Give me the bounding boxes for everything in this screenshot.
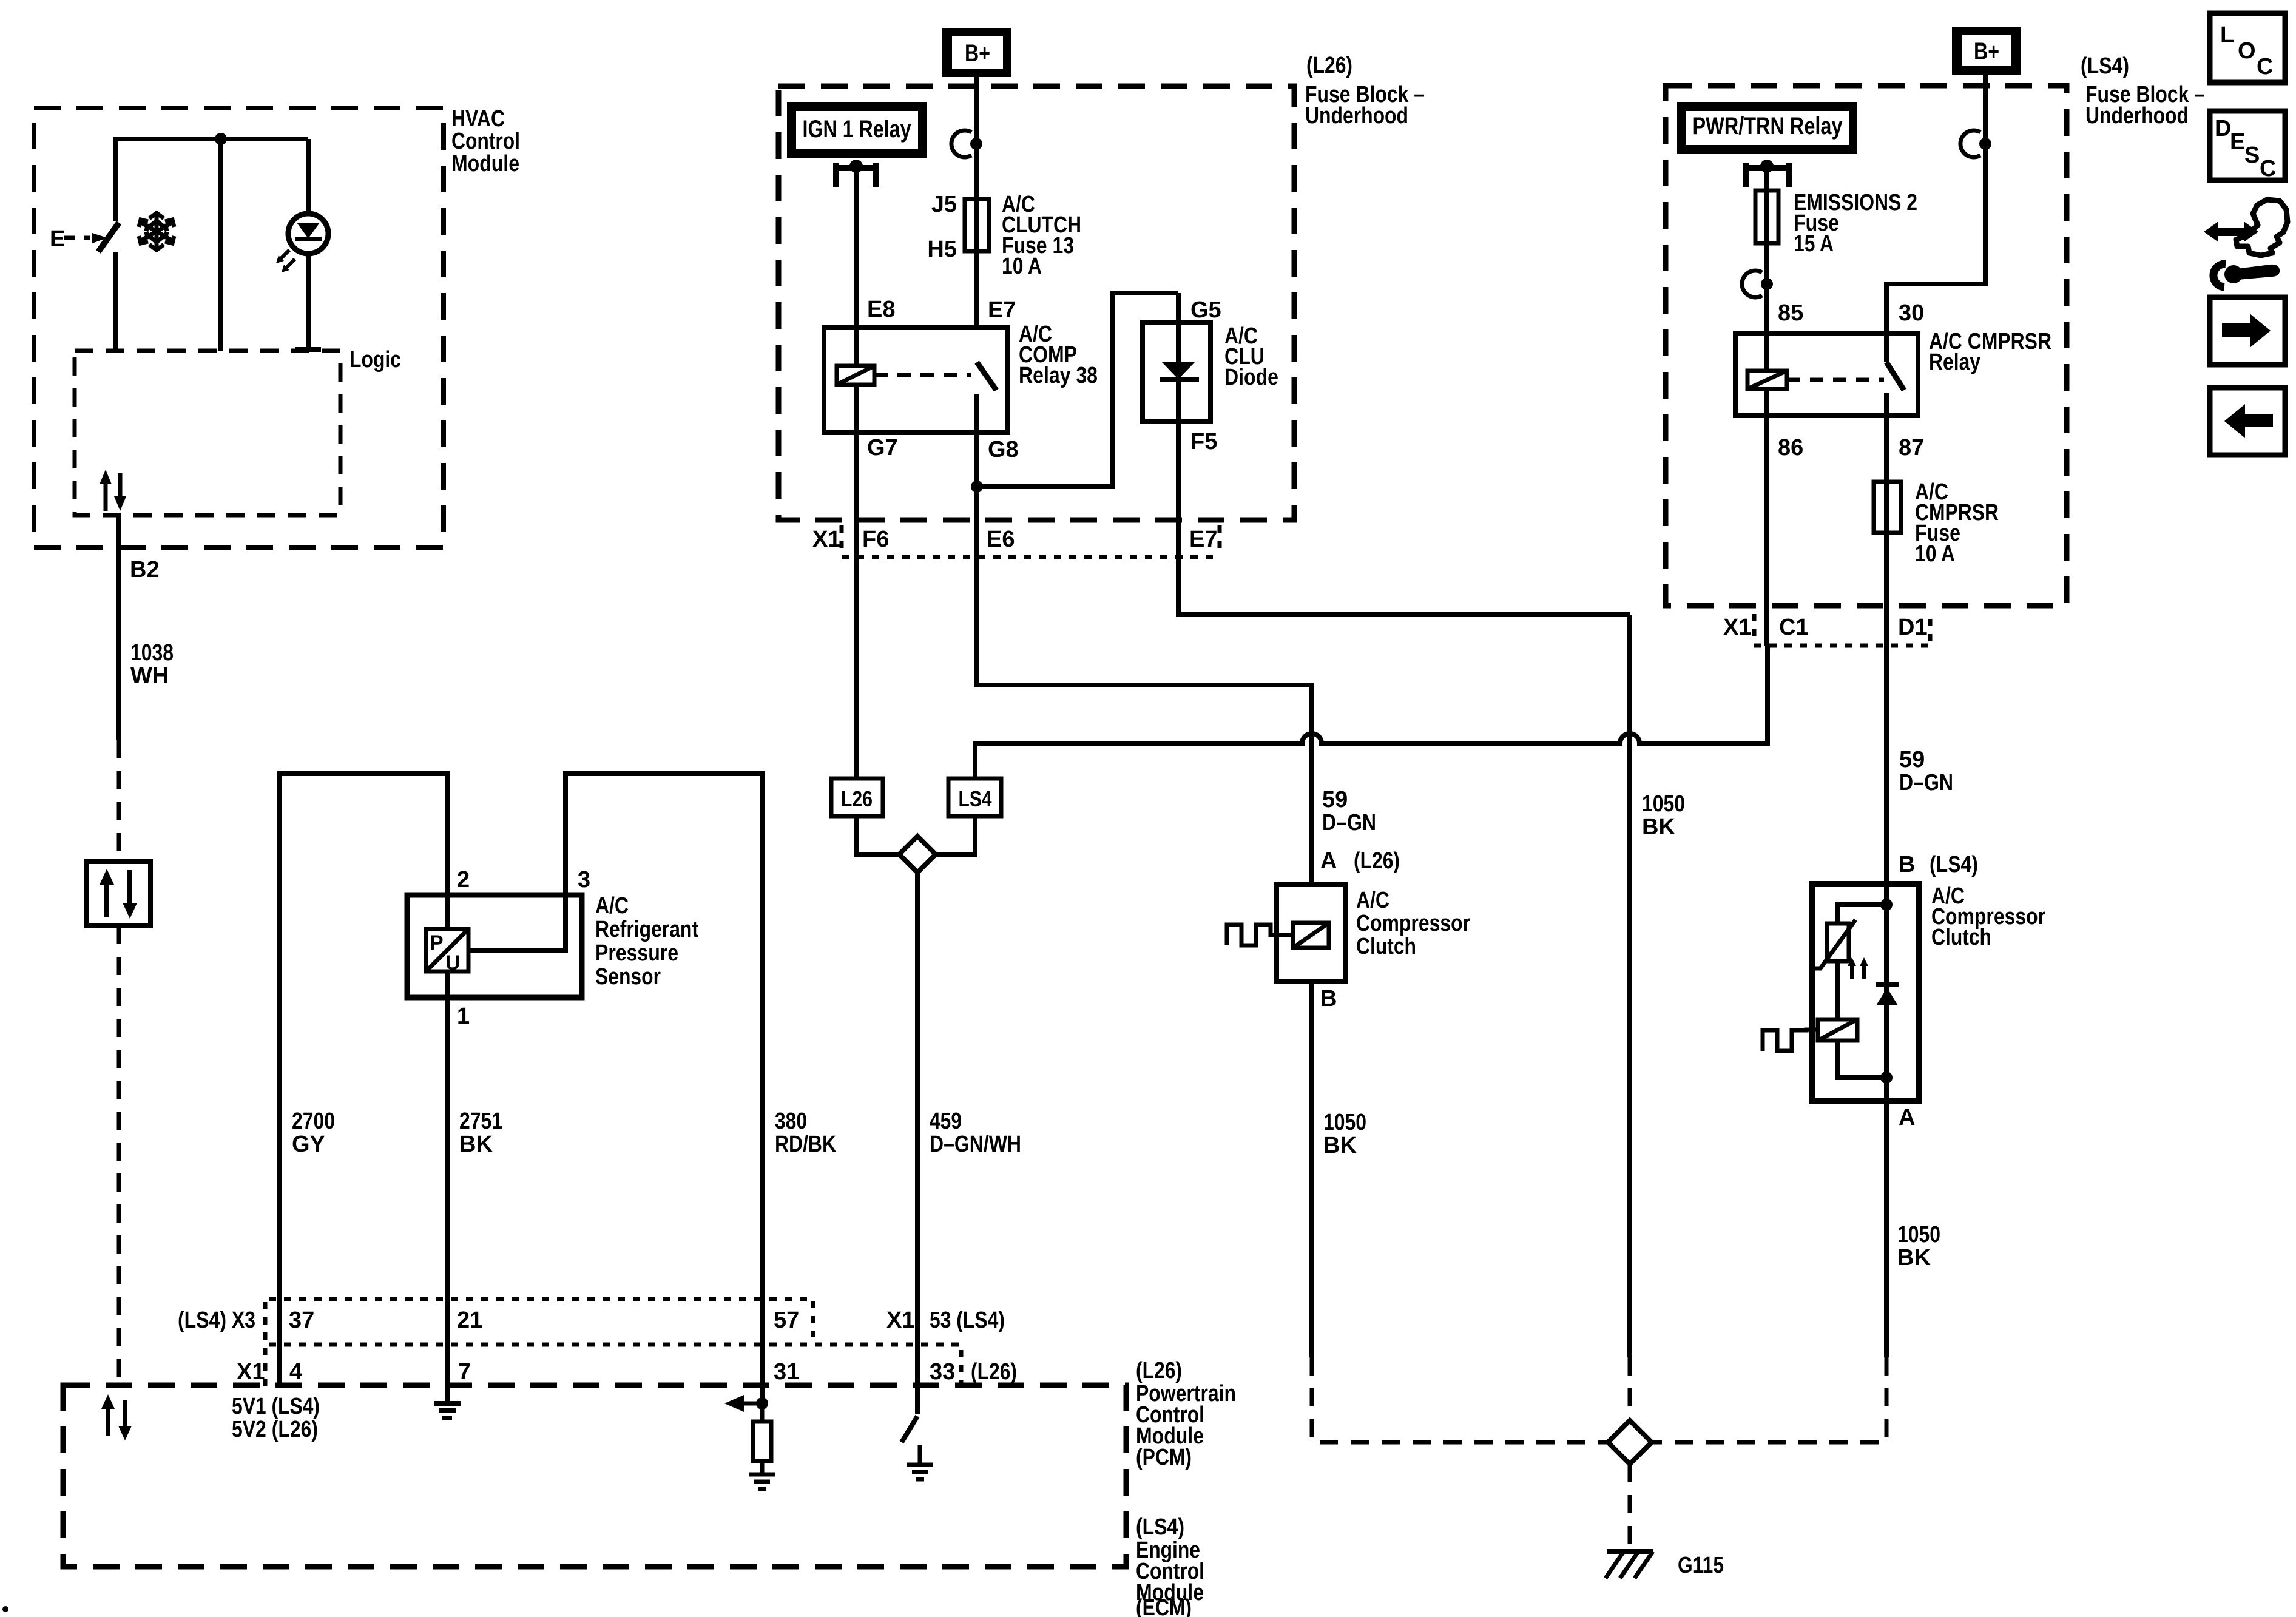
- wire L26 box to splice: [856, 816, 900, 854]
- dashed ground run left: [1312, 1357, 1607, 1442]
- svg-text:(L26): (L26): [1136, 1358, 1182, 1383]
- svg-text:B+: B+: [1974, 38, 1999, 65]
- label HVAC Control Module: [451, 106, 520, 177]
- thermal fuse (thermistor): [1811, 920, 1855, 968]
- up/down arrows in Logic: [100, 470, 126, 511]
- A/C CLU Diode box: [1143, 322, 1210, 422]
- svg-text:HVAC: HVAC: [451, 106, 505, 132]
- ground at pin 7: [434, 1345, 461, 1418]
- svg-text:IGN 1 Relay: IGN 1 Relay: [803, 116, 912, 143]
- dashed ground run middle: [1628, 1357, 1632, 1419]
- resistor R (pull-up): [753, 1403, 771, 1474]
- wire 2751 BK: [445, 895, 450, 1401]
- svg-text:Sensor: Sensor: [595, 964, 661, 990]
- coil-contact dashed link: [1787, 378, 1884, 382]
- svg-text:59: 59: [1322, 787, 1348, 812]
- diode D1 symbol: [1160, 362, 1199, 379]
- svg-text:G5: G5: [1190, 297, 1221, 323]
- ground under resistor: [749, 1474, 775, 1489]
- svg-text:P: P: [430, 931, 444, 954]
- label A/C COMP Relay 38: [1019, 322, 1098, 388]
- IGN 1 Relay label box: [787, 102, 927, 158]
- svg-text:PWR/TRN Relay: PWR/TRN Relay: [1693, 113, 1843, 140]
- fuse A/C CLUTCH Fuse 13: [965, 199, 989, 251]
- svg-text:33: 33: [930, 1359, 955, 1385]
- svg-text:1050: 1050: [1323, 1110, 1366, 1135]
- fuse A/C CMPRSR: [1874, 482, 1901, 533]
- svg-text:1038: 1038: [130, 640, 174, 666]
- svg-text:G7: G7: [867, 435, 898, 461]
- svg-text:1050: 1050: [1642, 791, 1685, 817]
- connector bracket X1 left: [263, 1348, 268, 1386]
- svg-text:1050: 1050: [1897, 1222, 1940, 1247]
- svg-text:10 A: 10 A: [1002, 254, 1042, 279]
- wire G7 to L26 connector: [854, 385, 859, 778]
- inline connector hook B+ right: [1960, 130, 1991, 157]
- svg-text:59: 59: [1899, 747, 1925, 772]
- svg-text:BK: BK: [459, 1132, 493, 1157]
- svg-text:E7: E7: [1189, 527, 1217, 552]
- A/C Compressor Clutch box L26: [1277, 885, 1345, 981]
- hot-gas arrows: [1848, 957, 1868, 979]
- svg-text:H5: H5: [927, 237, 957, 262]
- svg-text:BK: BK: [1897, 1245, 1931, 1271]
- svg-text:Diode: Diode: [1224, 365, 1278, 390]
- DESC icon box: [2210, 111, 2285, 181]
- svg-text:21: 21: [457, 1308, 482, 1333]
- wire B2: [116, 515, 121, 740]
- node junction clutch bottom: [1880, 1072, 1893, 1084]
- svg-text:J5: J5: [931, 192, 957, 217]
- wire dashed 1038 WH: [117, 740, 121, 1385]
- svg-text:L26: L26: [841, 786, 873, 811]
- svg-text:D–GN/WH: D–GN/WH: [930, 1132, 1021, 1157]
- svg-text:B+: B+: [965, 40, 990, 67]
- wire thermal fuse to coil: [1835, 961, 1840, 1019]
- svg-text:L: L: [2220, 22, 2234, 48]
- back arrow icon box: [2210, 388, 2285, 455]
- label EMISSIONS 2 Fuse 15 A: [1794, 190, 1917, 257]
- relay coil: [1747, 371, 1787, 389]
- svg-text:5V1 (LS4): 5V1 (LS4): [232, 1394, 320, 1419]
- svg-text:86: 86: [1778, 435, 1803, 461]
- splice diamond G115: [1608, 1420, 1652, 1464]
- LS4 option box: [948, 778, 1001, 816]
- splice diamond: [899, 836, 936, 873]
- svg-text:S: S: [2244, 143, 2260, 168]
- stray dot bottom-left: [2, 1606, 8, 1612]
- svg-text:O: O: [2238, 38, 2256, 64]
- svg-text:(LS4) X3: (LS4) X3: [178, 1308, 255, 1333]
- dashed ground run right: [1653, 1357, 1886, 1442]
- labels PCM right column: [1136, 1358, 1236, 1617]
- A/C COMP Relay 38 box: [824, 328, 1008, 433]
- node junction clutch top: [1880, 899, 1893, 911]
- svg-text:85: 85: [1778, 300, 1803, 326]
- wire coil to lower junction: [1838, 1041, 1886, 1078]
- svg-text:X1: X1: [886, 1308, 914, 1333]
- snowflake icon: [139, 212, 174, 250]
- connector row X1/C1/D1: [1723, 614, 1930, 647]
- svg-text:B: B: [1899, 852, 1915, 877]
- svg-text:C1: C1: [1779, 615, 1809, 640]
- svg-text:G8: G8: [988, 437, 1019, 462]
- svg-text:Underhood: Underhood: [1305, 103, 1408, 129]
- svg-text:A: A: [1899, 1105, 1915, 1130]
- coil-contact dashed link: [874, 373, 971, 377]
- svg-text:D–GN: D–GN: [1322, 810, 1376, 836]
- wire 87 through fuse to D1: [1884, 416, 1889, 884]
- svg-text:Relay 38: Relay 38: [1019, 363, 1098, 388]
- wire F5 down and right to 1050 BK: [1178, 422, 1630, 615]
- svg-text:30: 30: [1899, 300, 1924, 326]
- svg-text:A/C: A/C: [1356, 888, 1389, 913]
- wire 2700 GY: [280, 774, 447, 1385]
- svg-text:459: 459: [930, 1109, 962, 1134]
- label A/C Compressor Clutch: [1931, 883, 2045, 950]
- svg-text:C: C: [2257, 54, 2273, 79]
- svg-text:37: 37: [289, 1308, 314, 1333]
- fuse block LS4 dashed box: [1666, 86, 2067, 606]
- connector row X1 dotted line: [269, 1343, 965, 1347]
- label A/C CMPRSR Relay: [1929, 329, 2051, 375]
- long horizontal 59 D-GN with hops: [975, 646, 1768, 778]
- svg-text:BK: BK: [1323, 1133, 1357, 1158]
- wire 459 D-GN/WH: [915, 873, 920, 1414]
- svg-text:Module: Module: [451, 151, 519, 177]
- connector bracket 33 right: [959, 1350, 964, 1383]
- svg-text:E6: E6: [987, 527, 1015, 552]
- Logic dashed box: [75, 351, 340, 515]
- wire 85 coil feed: [1764, 167, 1769, 371]
- svg-text:A: A: [1320, 848, 1337, 874]
- svg-text:(PCM): (PCM): [1136, 1445, 1192, 1470]
- wire top horizontal: [116, 137, 308, 141]
- svg-text:Refrigerant: Refrigerant: [595, 917, 698, 942]
- switch S (A/C request): [50, 137, 119, 351]
- svg-text:GY: GY: [292, 1132, 325, 1157]
- svg-text:15 A: 15 A: [1794, 231, 1834, 257]
- svg-text:C: C: [2260, 156, 2276, 181]
- svg-text:X1: X1: [812, 527, 840, 552]
- node junction pin 31: [756, 1397, 768, 1409]
- label A/C Compressor Clutch: [1356, 888, 1470, 959]
- label A/C CMPRSR Fuse 10 A: [1915, 479, 1999, 567]
- LOC icon box: [2210, 13, 2285, 83]
- svg-text:7: 7: [458, 1359, 471, 1385]
- forward arrow icon box: [2210, 297, 2285, 365]
- battery B+ symbol right: [1952, 27, 2021, 75]
- svg-text:Pressure: Pressure: [595, 940, 678, 966]
- label (L26) Fuse Block Underhood: [1305, 53, 1425, 129]
- label (LS4) Fuse Block Underhood: [2081, 53, 2205, 129]
- svg-text:(LS4): (LS4): [1136, 1514, 1184, 1540]
- svg-text:3: 3: [578, 867, 590, 893]
- suppression diode on main: [1876, 984, 1899, 1005]
- svg-text:5V2 (L26): 5V2 (L26): [232, 1417, 318, 1442]
- svg-text:B: B: [1320, 986, 1337, 1011]
- svg-text:2751: 2751: [459, 1109, 502, 1134]
- relay coil: [837, 366, 874, 385]
- relay contact switch: [1886, 362, 1904, 416]
- wire G8 to diode branch: [977, 293, 1178, 487]
- relay feed bracket: [836, 160, 876, 187]
- svg-text:Underhood: Underhood: [2085, 103, 2189, 129]
- A/C Refrigerant Pressure Sensor box: [407, 895, 582, 998]
- A/C CMPRSR Relay box: [1735, 334, 1918, 416]
- svg-text:X1: X1: [1723, 615, 1751, 640]
- svg-text:31: 31: [774, 1359, 799, 1385]
- PWR/TRN Relay label box: [1677, 102, 1857, 154]
- ground under switch: [907, 1465, 933, 1479]
- up/down arrows in PCM: [101, 1394, 132, 1440]
- svg-text:Clutch: Clutch: [1931, 925, 1991, 950]
- svg-text:RD/BK: RD/BK: [775, 1132, 836, 1157]
- switch at pin 33: [902, 1416, 920, 1465]
- wire E8 coil feed: [854, 167, 859, 366]
- wire B+ right to pin 30: [1886, 70, 1985, 362]
- svg-text:1: 1: [457, 1004, 470, 1029]
- svg-text:D1: D1: [1898, 615, 1928, 640]
- fuse block L26 dashed box: [778, 86, 1294, 520]
- svg-text:E8: E8: [867, 297, 895, 322]
- connector bracket X3 left: [263, 1302, 268, 1340]
- A/C Compressor Clutch box LS4: [1812, 884, 1919, 1101]
- wire LS4 box to splice: [934, 816, 975, 854]
- svg-text:D: D: [2215, 116, 2231, 141]
- in-line connector box with arrows: [86, 862, 150, 925]
- LED indicator: [276, 139, 328, 351]
- svg-text:F5: F5: [1190, 429, 1217, 454]
- connector row X1/F6/E6/E7: [812, 525, 1220, 557]
- label A/C Refrigerant Pressure Sensor: [595, 893, 698, 990]
- wire E6 run to clutch A: [977, 487, 1312, 884]
- svg-text:U: U: [445, 951, 461, 974]
- svg-text:380: 380: [775, 1109, 807, 1134]
- hand/wrench navigation icon: [2204, 200, 2288, 287]
- fuse EMISSIONS 2: [1755, 191, 1778, 243]
- wire middle vertical: [218, 139, 223, 351]
- P/U transducer square: [426, 929, 468, 974]
- wire 380 RD/BK: [566, 774, 762, 1403]
- svg-text:57: 57: [774, 1308, 799, 1333]
- dashed to G115 ground: [1628, 1464, 1632, 1551]
- svg-text:E: E: [2230, 129, 2245, 155]
- inline connector hook 85: [1742, 271, 1773, 297]
- svg-text:Logic: Logic: [349, 347, 401, 373]
- wire 1050 BK middle down: [1627, 615, 1632, 1357]
- clutch coil squiggle LS4: [1763, 1030, 1818, 1051]
- svg-text:E7: E7: [988, 297, 1016, 323]
- inline connector hook B+ left: [951, 130, 982, 157]
- svg-text:(LS4): (LS4): [1930, 852, 1978, 877]
- svg-text:X1: X1: [237, 1359, 265, 1385]
- svg-text:D–GN: D–GN: [1899, 770, 1953, 795]
- svg-text:G115: G115: [1678, 1553, 1724, 1578]
- svg-text:Control: Control: [451, 129, 520, 154]
- svg-text:53 (LS4): 53 (LS4): [930, 1308, 1005, 1333]
- svg-text:2700: 2700: [292, 1109, 335, 1134]
- relay contact switch: [977, 362, 996, 487]
- svg-text:4: 4: [289, 1359, 302, 1385]
- label A/C CLU Diode: [1224, 323, 1278, 390]
- svg-text:87: 87: [1899, 435, 1924, 461]
- svg-text:(ECM): (ECM): [1136, 1595, 1192, 1617]
- wire branch to thermal fuse: [1838, 905, 1886, 923]
- L26 option box: [831, 778, 883, 816]
- svg-text:(L26): (L26): [1354, 848, 1400, 874]
- connector bracket X3 right: [811, 1301, 815, 1337]
- battery B+ symbol left: [942, 28, 1011, 77]
- clutch coil: [1293, 923, 1329, 948]
- wire B+ to fuse: [974, 70, 979, 328]
- svg-text:2: 2: [457, 867, 470, 893]
- wire G5 diode feed: [1176, 293, 1181, 422]
- svg-text:Clutch: Clutch: [1356, 934, 1416, 959]
- svg-text:10 A: 10 A: [1915, 541, 1955, 567]
- svg-text:Relay: Relay: [1929, 349, 1980, 375]
- svg-text:BK: BK: [1642, 814, 1675, 840]
- svg-text:E: E: [50, 226, 65, 252]
- wire clutch B down: [1309, 981, 1314, 1357]
- svg-text:Compressor: Compressor: [1356, 911, 1470, 936]
- wire 86 to C1: [1764, 389, 1769, 646]
- svg-text:F6: F6: [862, 527, 889, 552]
- node junction G8 branch: [971, 481, 983, 493]
- svg-text:(L26): (L26): [1306, 53, 1352, 78]
- svg-text:B2: B2: [130, 557, 160, 582]
- svg-text:LS4: LS4: [959, 786, 992, 811]
- svg-text:(LS4): (LS4): [2081, 53, 2129, 79]
- node junction: [215, 133, 227, 145]
- ground G115 symbol: [1606, 1551, 1653, 1578]
- clutch coil: [1818, 1019, 1857, 1041]
- svg-text:(L26): (L26): [971, 1359, 1017, 1385]
- HVAC Control Module dashed box: [34, 108, 444, 547]
- connector row X3 dotted line: [269, 1297, 813, 1301]
- svg-text:A/C: A/C: [595, 893, 629, 919]
- svg-text:WH: WH: [130, 663, 169, 689]
- label A/C CLUTCH Fuse 13 10 A: [1002, 192, 1081, 279]
- sensor internal wire: [468, 895, 566, 950]
- wire main through clutch: [1884, 884, 1889, 1357]
- relay feed bracket: [1746, 160, 1789, 187]
- signal arrow at pin 31: [744, 1402, 762, 1406]
- PCM/ECM dashed box: [63, 1385, 1126, 1567]
- clutch coil squiggle: [1227, 925, 1293, 945]
